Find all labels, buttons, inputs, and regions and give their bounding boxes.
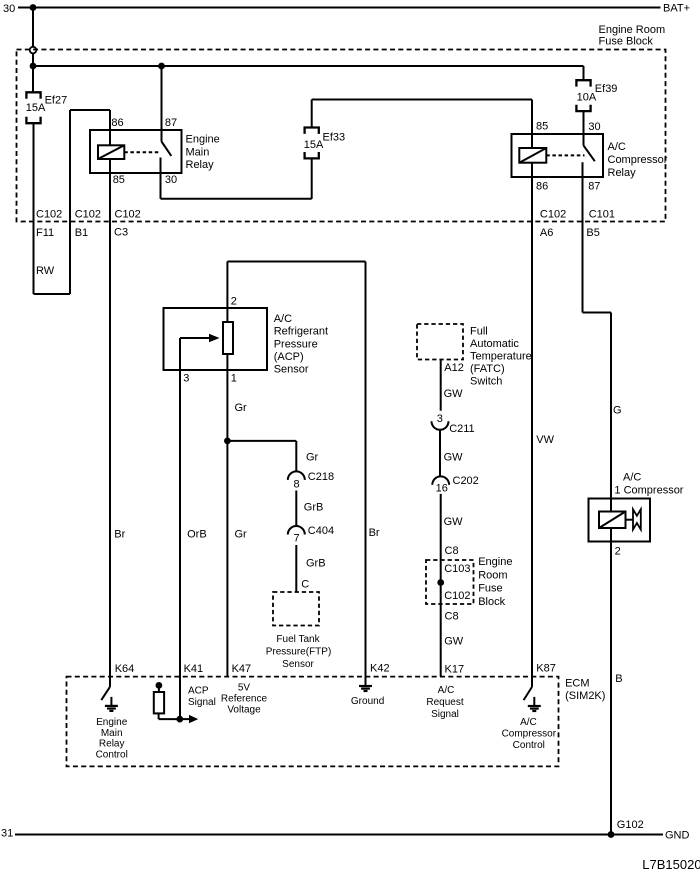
svg-text:1 Compressor: 1 Compressor bbox=[614, 484, 683, 496]
svg-text:Gr: Gr bbox=[235, 529, 248, 541]
svg-text:ACP: ACP bbox=[188, 686, 209, 697]
svg-text:F11: F11 bbox=[36, 227, 54, 239]
svg-text:1: 1 bbox=[231, 373, 237, 385]
svg-text:Switch: Switch bbox=[470, 376, 502, 388]
svg-text:Br: Br bbox=[369, 527, 380, 539]
svg-text:VW: VW bbox=[536, 434, 554, 446]
svg-text:Ef27: Ef27 bbox=[45, 94, 68, 106]
svg-text:A/C: A/C bbox=[520, 717, 537, 728]
svg-text:GrB: GrB bbox=[306, 557, 326, 569]
svg-text:(FATC): (FATC) bbox=[470, 363, 505, 375]
svg-text:G: G bbox=[613, 405, 622, 417]
svg-text:31: 31 bbox=[1, 828, 13, 840]
svg-text:C101: C101 bbox=[589, 209, 615, 221]
svg-text:10A: 10A bbox=[577, 91, 597, 103]
svg-text:30: 30 bbox=[3, 3, 15, 15]
svg-text:8: 8 bbox=[294, 478, 300, 490]
svg-text:Pressure(FTP): Pressure(FTP) bbox=[266, 647, 332, 658]
svg-text:A12: A12 bbox=[444, 362, 464, 374]
svg-text:C102: C102 bbox=[36, 208, 62, 220]
svg-text:Engine Room: Engine Room bbox=[599, 24, 666, 36]
svg-text:Fuse Block: Fuse Block bbox=[599, 36, 654, 48]
svg-text:GW: GW bbox=[444, 388, 464, 400]
svg-text:Temperature: Temperature bbox=[470, 351, 532, 363]
svg-text:Pressure: Pressure bbox=[274, 338, 318, 350]
svg-text:C103: C103 bbox=[444, 563, 470, 575]
svg-text:Fuse: Fuse bbox=[478, 583, 502, 595]
svg-text:Block: Block bbox=[478, 596, 505, 608]
svg-text:30: 30 bbox=[165, 174, 177, 186]
svg-text:Sensor: Sensor bbox=[274, 364, 309, 376]
svg-text:RW: RW bbox=[36, 265, 55, 277]
svg-text:G102: G102 bbox=[617, 819, 644, 831]
svg-text:C211: C211 bbox=[449, 423, 474, 435]
svg-text:Full: Full bbox=[470, 326, 488, 338]
svg-text:B1: B1 bbox=[75, 227, 88, 239]
svg-text:30: 30 bbox=[588, 121, 600, 133]
svg-text:(SIM2K): (SIM2K) bbox=[565, 690, 605, 702]
svg-text:Compressor: Compressor bbox=[502, 729, 557, 740]
svg-text:C: C bbox=[301, 579, 309, 591]
svg-text:K87: K87 bbox=[536, 663, 556, 675]
svg-text:C102: C102 bbox=[75, 208, 101, 220]
svg-text:86: 86 bbox=[536, 181, 548, 193]
svg-text:Relay: Relay bbox=[186, 159, 215, 171]
svg-text:Br: Br bbox=[114, 529, 125, 541]
svg-text:Main: Main bbox=[186, 146, 210, 158]
svg-text:Signal: Signal bbox=[431, 709, 459, 720]
svg-text:87: 87 bbox=[165, 117, 177, 129]
svg-text:5V: 5V bbox=[238, 683, 251, 694]
svg-text:C202: C202 bbox=[453, 475, 479, 487]
svg-text:K42: K42 bbox=[370, 662, 390, 674]
svg-text:A/C: A/C bbox=[623, 471, 641, 483]
svg-text:C102: C102 bbox=[540, 209, 566, 221]
svg-text:2: 2 bbox=[231, 296, 237, 308]
svg-text:Fuel Tank: Fuel Tank bbox=[276, 634, 320, 645]
svg-text:Refrigerant: Refrigerant bbox=[274, 326, 328, 338]
svg-text:C8: C8 bbox=[445, 611, 459, 623]
svg-text:Room: Room bbox=[478, 569, 507, 581]
svg-text:GrB: GrB bbox=[304, 502, 324, 514]
svg-text:BAT+: BAT+ bbox=[663, 3, 690, 15]
svg-text:86: 86 bbox=[111, 117, 123, 129]
svg-text:15A: 15A bbox=[26, 102, 46, 114]
svg-text:Control: Control bbox=[96, 750, 128, 761]
svg-text:Request: Request bbox=[426, 697, 463, 708]
svg-text:GW: GW bbox=[444, 452, 464, 464]
svg-text:GND: GND bbox=[665, 829, 690, 841]
svg-text:Gr: Gr bbox=[306, 452, 319, 464]
svg-text:C102: C102 bbox=[444, 590, 470, 602]
svg-text:3: 3 bbox=[183, 373, 189, 385]
svg-text:C8: C8 bbox=[445, 545, 459, 557]
svg-text:GW: GW bbox=[444, 636, 464, 648]
svg-text:L7B15020: L7B15020 bbox=[642, 857, 700, 872]
svg-text:C3: C3 bbox=[114, 227, 128, 239]
svg-text:A/C: A/C bbox=[274, 313, 292, 325]
svg-text:OrB: OrB bbox=[187, 529, 207, 541]
svg-text:87: 87 bbox=[588, 181, 600, 193]
svg-text:7: 7 bbox=[294, 533, 300, 545]
svg-text:GW: GW bbox=[444, 516, 464, 528]
svg-text:A/C: A/C bbox=[608, 141, 626, 153]
svg-text:85: 85 bbox=[113, 174, 125, 186]
svg-text:ECM: ECM bbox=[565, 677, 589, 689]
svg-text:(ACP): (ACP) bbox=[274, 351, 304, 363]
svg-text:K64: K64 bbox=[115, 663, 135, 675]
svg-text:K47: K47 bbox=[232, 663, 252, 675]
svg-text:Ef39: Ef39 bbox=[595, 83, 618, 95]
svg-text:Engine: Engine bbox=[186, 134, 220, 146]
svg-text:Main: Main bbox=[101, 728, 123, 739]
svg-text:C404: C404 bbox=[308, 525, 334, 537]
svg-text:Relay: Relay bbox=[608, 167, 637, 179]
svg-text:Signal: Signal bbox=[188, 697, 216, 708]
svg-text:Automatic: Automatic bbox=[470, 338, 519, 350]
svg-text:Relay: Relay bbox=[99, 739, 125, 750]
svg-text:2: 2 bbox=[615, 546, 621, 558]
svg-text:3: 3 bbox=[437, 413, 443, 425]
svg-text:K17: K17 bbox=[445, 663, 465, 675]
svg-text:Gr: Gr bbox=[235, 402, 248, 414]
svg-text:C218: C218 bbox=[308, 471, 334, 483]
svg-text:K41: K41 bbox=[184, 663, 204, 675]
svg-text:B5: B5 bbox=[586, 227, 599, 239]
svg-text:85: 85 bbox=[536, 121, 548, 133]
svg-text:Ef33: Ef33 bbox=[323, 131, 346, 143]
svg-text:C102: C102 bbox=[115, 208, 141, 220]
svg-text:15A: 15A bbox=[304, 139, 324, 151]
svg-text:Engine: Engine bbox=[96, 717, 128, 728]
svg-text:Control: Control bbox=[513, 740, 545, 751]
svg-text:Ground: Ground bbox=[351, 696, 384, 707]
svg-text:16: 16 bbox=[436, 482, 448, 494]
svg-text:Reference: Reference bbox=[221, 694, 268, 705]
svg-text:B: B bbox=[615, 673, 622, 685]
svg-text:A/C: A/C bbox=[438, 685, 455, 696]
svg-text:Engine: Engine bbox=[478, 556, 512, 568]
svg-text:Compressor: Compressor bbox=[608, 154, 668, 166]
svg-text:Sensor: Sensor bbox=[282, 659, 314, 670]
svg-text:A6: A6 bbox=[540, 227, 553, 239]
svg-text:Voltage: Voltage bbox=[227, 705, 261, 716]
